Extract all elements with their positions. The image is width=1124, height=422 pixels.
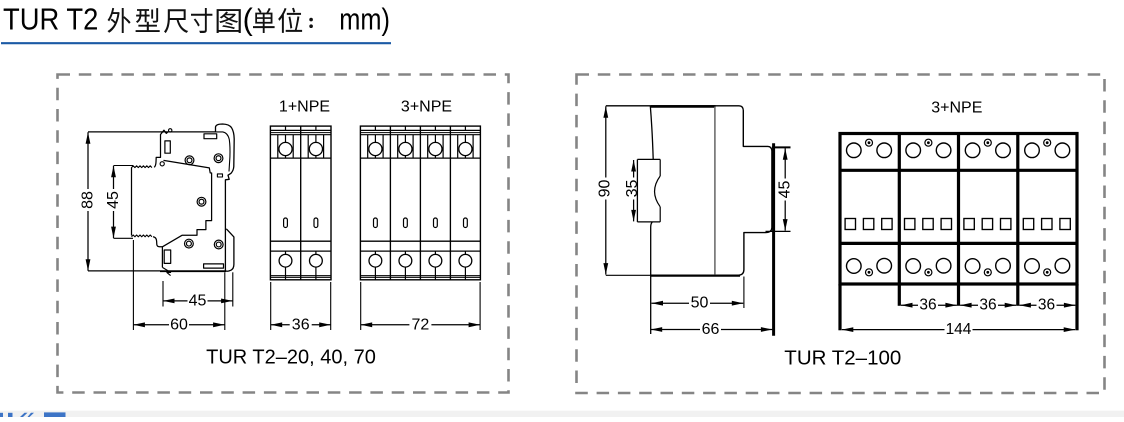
svg-text:3+NPE: 3+NPE	[931, 100, 982, 117]
module divider	[419, 126, 421, 280]
bottom terminal screw @435.4	[434, 251, 436, 254]
module divider	[449, 126, 451, 280]
svg-text:45: 45	[189, 292, 207, 309]
inner front face line (gray)	[714, 107, 716, 275]
bottom terminal screw @465.4	[464, 251, 466, 254]
dim 36 line	[271, 324, 331, 326]
dim 88 extension top	[88, 131, 169, 133]
module face @928.4	[906, 143, 921, 158]
svg-text:66: 66	[702, 321, 720, 338]
dim 90 bottom extension	[606, 274, 651, 276]
svg-text:36: 36	[1038, 297, 1055, 314]
small circle on top edge	[169, 129, 172, 132]
svg-text:1+NPE: 1+NPE	[279, 99, 330, 116]
module face @987.8	[965, 143, 980, 158]
cage walls module @315.9	[307, 135, 309, 158]
bottom gray band	[0, 411, 1124, 417]
cage walls module @375.4	[367, 135, 369, 158]
diagonal pivot circle	[160, 162, 164, 166]
svg-text:50: 50	[691, 295, 709, 312]
dim 45 horizontal line	[163, 300, 233, 302]
module bottom step	[153, 237, 162, 268]
dim 35 line	[633, 160, 635, 221]
module face @1047.2	[1025, 143, 1040, 158]
indicator window @435.4	[434, 218, 438, 228]
base block outline with top hook	[169, 124, 235, 272]
svg-text:(: (	[243, 2, 253, 36]
svg-text:35: 35	[624, 180, 641, 198]
screw circle 1	[185, 156, 194, 165]
screw circle 4	[185, 239, 194, 248]
indicator window @405.4	[404, 218, 408, 228]
dim 36 lines	[901, 304, 957, 306]
svg-text:TUR T2–20, 40, 70: TUR T2–20, 40, 70	[206, 347, 376, 369]
svg-text:60: 60	[170, 316, 188, 333]
top terminal screw @375.4	[374, 135, 376, 143]
dim 90 top extension / body top edge	[606, 105, 739, 107]
front view outer body 3+NPE	[360, 126, 480, 280]
indicator window @315.9	[314, 218, 318, 228]
dim 50 line	[652, 302, 744, 304]
svg-text:mm): mm)	[339, 2, 390, 36]
cage walls module @405.4	[397, 135, 399, 158]
module upper-left edge and notch peak	[154, 130, 168, 167]
thick bottom edge	[651, 274, 740, 276]
thumb groove arc	[655, 176, 661, 207]
top terminal screw @285.5	[285, 135, 287, 143]
dim 45 line right	[784, 148, 786, 230]
thick top cover edge	[651, 105, 716, 108]
module left edge	[131, 167, 133, 235]
upper vertical slot	[165, 141, 170, 153]
horizontal dividers thick	[840, 169, 1077, 172]
release clip tip	[162, 267, 170, 275]
horizontal band lines	[360, 129, 480, 131]
svg-text:36: 36	[292, 316, 310, 333]
bottom terminal screw @285.5	[285, 251, 287, 254]
svg-text:45: 45	[105, 191, 122, 209]
dim 60 line	[133, 324, 224, 326]
DIN rail mounting plate thick line	[772, 143, 775, 335]
horizontal band lines	[270, 129, 331, 131]
indicator window @465.4	[464, 218, 468, 228]
dim witness lines 1+NPE	[270, 282, 272, 330]
svg-text:88: 88	[80, 191, 97, 209]
bottom terminal screw @315.9	[315, 251, 317, 254]
dim 66 line	[651, 329, 773, 331]
module face @869	[847, 143, 862, 158]
left edge of body	[650, 106, 653, 160]
svg-text:36: 36	[919, 297, 936, 314]
top terminal screw @405.4	[404, 135, 406, 143]
dim 45 horizontal witness lines	[162, 281, 164, 307]
svg-text:3+NPE: 3+NPE	[401, 99, 452, 116]
top terminal screw @435.4	[434, 135, 436, 143]
svg-text:144: 144	[946, 321, 972, 338]
right dashed panel border	[577, 75, 1105, 394]
right small slot	[217, 174, 222, 177]
dim 45 extensions	[772, 146, 791, 148]
top terminal screw @315.9	[315, 135, 317, 143]
hook inner contour	[216, 132, 231, 172]
screw circle 5	[214, 240, 223, 249]
screw circle 3	[197, 197, 206, 206]
top horizontal slot	[204, 134, 217, 139]
module divider	[300, 126, 302, 280]
base front edge with staircase	[162, 160, 211, 246]
screw circle 2	[214, 154, 223, 163]
dim witness lines 3+NPE	[360, 282, 362, 330]
body outline right T2-100	[651, 106, 772, 275]
svg-text:72: 72	[412, 316, 430, 333]
module dividers thick	[898, 134, 901, 285]
witness stubs below	[838, 284, 841, 330]
dim 90 line	[605, 106, 607, 274]
bottom terminal screw @405.4	[404, 251, 406, 254]
fullwidth colon dots	[309, 18, 313, 22]
bottom horizontal slot	[204, 264, 224, 268]
dim 72 line	[361, 324, 480, 326]
module top zigzag edge	[132, 166, 152, 168]
svg-text:TUR T2: TUR T2	[3, 2, 98, 36]
dim 45 extensions	[114, 165, 134, 167]
bottom terminal screw @375.4	[374, 251, 376, 254]
clipped blue heading fragments	[0, 412, 66, 417]
right side view: TUR T2-100 profile	[596, 106, 793, 338]
svg-text:45: 45	[777, 181, 794, 199]
cage walls module @285.5	[277, 135, 279, 158]
left side view: device profile TUR T2-20/40/70	[80, 124, 235, 333]
svg-text:90: 90	[596, 180, 613, 198]
title underline	[1, 42, 391, 44]
bottom edge / dim 88 extension	[88, 270, 227, 272]
dim 60 witness lines	[132, 240, 134, 330]
module divider	[389, 126, 391, 280]
indicator window @375.4	[374, 218, 378, 228]
indicator window @285.5	[284, 218, 288, 228]
top terminal screw @465.4	[464, 135, 466, 143]
dim 144 line	[842, 329, 1075, 331]
svg-text:36: 36	[979, 297, 996, 314]
dim 45 vertical line	[113, 166, 115, 238]
dim 88 line	[87, 132, 89, 270]
outer DIN flange step	[226, 229, 234, 272]
cage walls module @435.4	[427, 135, 429, 158]
front bump (handle)	[637, 158, 660, 160]
lower vertical slot	[164, 250, 171, 263]
module bottom zigzag edge	[132, 235, 152, 237]
svg-text:TUR T2–100: TUR T2–100	[784, 346, 901, 369]
cage walls module @465.4	[457, 135, 459, 158]
front view outer body 1+NPE	[270, 126, 331, 280]
dim 50 witness right	[743, 277, 745, 309]
left dashed panel border	[58, 75, 509, 393]
front view outer body T2-100	[840, 134, 1077, 285]
